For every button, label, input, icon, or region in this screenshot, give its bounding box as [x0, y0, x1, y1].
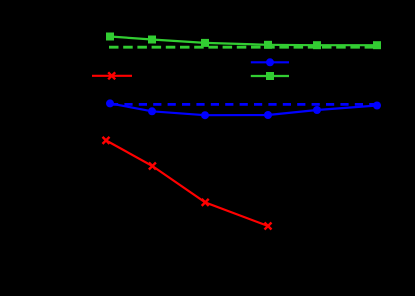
- green solid series line: [110, 37, 377, 46]
- blue solid series line: [110, 103, 377, 115]
- legend blue sample: [251, 61, 289, 63]
- legend green sample: [251, 75, 289, 77]
- red solid series line: [106, 140, 268, 226]
- green square markers: [106, 33, 381, 50]
- blue dashed baseline: [110, 103, 377, 106]
- green dashed baseline: [109, 46, 378, 49]
- blue circle markers: [106, 99, 381, 119]
- red X markers: [103, 137, 272, 230]
- legend red sample: [92, 75, 132, 77]
